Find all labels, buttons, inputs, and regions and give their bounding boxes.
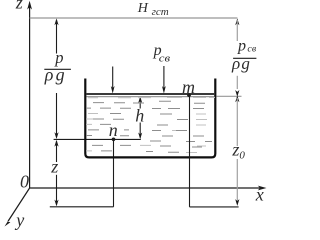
surface pressure arrow (right): [162, 66, 166, 94]
dimension line z0 (right, lower gray segment): [235, 95, 239, 205]
svg-text:гст: гст: [152, 6, 169, 18]
svg-text:св: св: [247, 45, 256, 55]
svg-text:z: z: [15, 0, 23, 13]
tank (open vessel walls and bottom): [85, 79, 215, 158]
z-axis: [27, 1, 32, 188]
svg-text:p: p: [237, 38, 246, 55]
dimension line p/rho-g (left, upper segment with up arrow): [54, 18, 58, 139]
svg-text:z: z: [50, 156, 58, 176]
y-axis: [5, 188, 30, 227]
label p/rho-g (fraction): [44, 48, 71, 85]
svg-text:ρg: ρg: [231, 54, 251, 73]
svg-text:y: y: [14, 210, 24, 230]
m-level tick to right dimension line: [216, 95, 241, 97]
projection line from m down to reference: [189, 96, 191, 207]
svg-text:x: x: [255, 185, 264, 205]
point n (dot): [112, 138, 116, 142]
svg-text:H: H: [137, 1, 149, 16]
x-axis: [30, 186, 267, 191]
svg-text:0: 0: [20, 172, 29, 192]
svg-text:m: m: [182, 77, 195, 97]
left reference foot line: [50, 206, 114, 208]
dimension line z (left, lower segment): [54, 140, 58, 207]
hydrostatic head line (top reference line): [30, 17, 238, 19]
svg-text:ρg: ρg: [44, 64, 67, 84]
dimension line h (depth of n): [138, 96, 142, 139]
liquid dash texture: [86, 98, 215, 153]
free surface line: [87, 93, 215, 95]
right reference foot line: [190, 206, 239, 208]
surface pressure arrow (left): [111, 67, 115, 94]
label p_sv/rho-g (fraction): [231, 38, 256, 73]
svg-text:h: h: [135, 106, 144, 126]
projection line from n down to reference: [113, 139, 115, 206]
svg-text:n: n: [109, 120, 118, 140]
point m (dot): [187, 93, 191, 97]
svg-text:св: св: [159, 54, 171, 65]
dimension line p_sv/rho-g (right, upper gray segment): [235, 18, 239, 96]
level line through point n: [54, 138, 141, 140]
surface shading line: [87, 96, 215, 98]
